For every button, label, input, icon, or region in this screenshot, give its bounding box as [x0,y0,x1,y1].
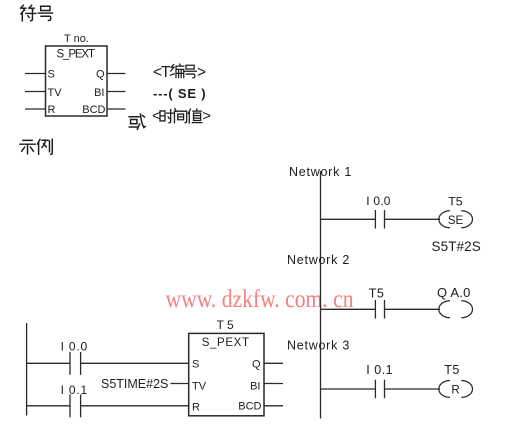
timer block T5 S_PEXT (example) [189,333,264,415]
svg-text:R: R [451,385,459,397]
svg-text:R: R [48,104,56,116]
svg-text:BI: BI [250,380,260,392]
svg-text:TV: TV [48,87,63,99]
svg-text:SE: SE [448,215,464,227]
pin Q wire (example) [264,362,283,364]
svg-text:Network 1: Network 1 [289,165,352,179]
svg-text:BI: BI [94,87,104,99]
contact I0.0 [375,210,384,229]
pin BCD wire (example) [264,405,283,407]
svg-text:Network 2: Network 2 [287,253,350,267]
contact I0.1 [375,380,384,399]
svg-text:I 0.1: I 0.1 [61,383,88,397]
svg-text:>: > [197,64,206,81]
svg-text:T5: T5 [448,194,462,208]
wire rung2 left [321,308,376,310]
coil Q A.0 [439,301,473,318]
timer box S_PEXT (symbol) [46,46,108,116]
svg-text:>: > [202,108,211,125]
section label 示例 (Example) [20,139,52,154]
wire TV stub [171,383,189,385]
wire rung1 left [321,218,376,220]
svg-text:S_PEXT: S_PEXT [57,49,96,61]
contact I0.1 (example) [70,395,81,418]
section label 符号 (Symbol) [21,5,53,20]
pin BI wire [107,91,126,93]
example: left power rail [26,323,28,416]
pin TV wire [25,91,46,93]
pin BCD wire [107,108,126,110]
svg-text:I 0.0: I 0.0 [61,340,88,354]
coil (SE) T5 [439,211,473,228]
svg-text:S5T#2S: S5T#2S [432,239,481,254]
label <T编号> (T number) [153,64,206,81]
wire rung3 right [385,388,441,390]
wire rung S right [81,362,189,364]
svg-text:I 0.0: I 0.0 [366,194,390,208]
wire rung2 right [385,308,441,310]
svg-text:Q: Q [252,358,261,370]
svg-text:BCD: BCD [82,104,105,116]
wire rung R right [81,405,189,407]
svg-text:Q: Q [96,69,105,81]
pin Q wire [107,73,126,75]
svg-text:T no.: T no. [64,33,89,45]
label 或 (or) [129,114,145,129]
pin R wire [25,108,46,110]
svg-text:---( SE ): ---( SE ) [153,86,206,101]
svg-text:S_PEXT: S_PEXT [202,337,249,349]
wire rung S left [27,362,70,364]
svg-text:S5TIME#2S: S5TIME#2S [101,377,168,391]
contact T5 [375,300,384,319]
svg-text:Network 3: Network 3 [287,339,350,353]
svg-text:T5: T5 [369,287,385,301]
svg-text:<T: <T [153,64,171,81]
wire rung1 right [385,218,441,220]
pin S wire [25,73,46,75]
coil (R) T5 [439,381,473,398]
contact I0.0 (example) [70,352,81,375]
svg-text:BCD: BCD [238,401,261,413]
svg-text:S: S [192,358,199,370]
wire rung3 left [321,388,376,390]
right ladder: power rail [320,171,322,419]
svg-text:TV: TV [192,380,207,392]
svg-text:I 0.1: I 0.1 [366,363,393,377]
svg-text:R: R [192,402,200,414]
svg-text:S: S [48,69,55,81]
svg-text:T5: T5 [444,363,460,377]
svg-text:Q A.0: Q A.0 [437,285,471,300]
label <时间值> (time value) [152,108,211,125]
wire rung R left [27,405,70,407]
pin BI wire (example) [264,383,283,385]
svg-text:T 5: T 5 [217,318,234,332]
